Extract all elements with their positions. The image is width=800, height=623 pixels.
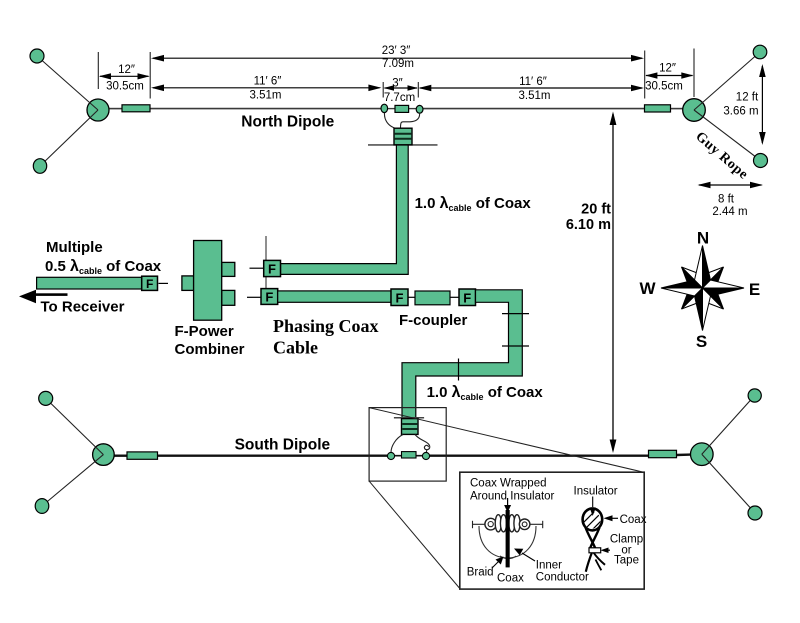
inset label: Coax (loop) — [620, 514, 647, 526]
svg-text:Around Insulator: Around Insulator — [470, 491, 555, 503]
svg-text:North Dipole: North Dipole — [241, 114, 334, 131]
svg-text:3.51m: 3.51m — [519, 90, 551, 102]
svg-text:12″: 12″ — [118, 64, 135, 76]
svg-text:Insulator: Insulator — [574, 485, 618, 497]
label: Multiple 0.5 lambda of coax — [45, 239, 162, 276]
svg-text:W: W — [639, 279, 656, 298]
label: F-Power Combiner — [175, 323, 245, 358]
svg-text:7.7cm: 7.7cm — [384, 92, 415, 104]
svg-text:3″: 3″ — [392, 78, 402, 90]
clamp arrow — [601, 548, 611, 554]
svg-text:12″: 12″ — [659, 63, 676, 75]
north center left small insulator — [381, 104, 388, 112]
clamp — [589, 548, 601, 553]
svg-text:23′ 3″: 23′ 3″ — [382, 45, 411, 57]
receiver F connector — [142, 276, 158, 291]
dimension 8ft guy rope — [698, 182, 764, 218]
loop insulator hatched coax fill — [576, 500, 612, 540]
south left insulator — [127, 452, 158, 459]
upper combiner lead — [250, 267, 264, 269]
upper F connector vertical guide line — [265, 236, 267, 289]
svg-text:Braid: Braid — [467, 566, 494, 578]
svg-text:Coax Wrapped: Coax Wrapped — [470, 478, 547, 490]
svg-text:Inner: Inner — [536, 559, 562, 571]
label: upper 1.0 lambda of coax — [415, 195, 532, 213]
svg-text:2.44 m: 2.44 m — [712, 206, 747, 218]
svg-text:3.66 m: 3.66 m — [723, 105, 758, 117]
south right guy rings — [748, 389, 762, 520]
label: South Dipole — [235, 437, 331, 454]
label: North Dipole — [241, 114, 334, 131]
south center right small insulator — [422, 452, 429, 459]
label: Phasing Coax Cable — [273, 316, 379, 358]
egg insulator body — [485, 515, 530, 532]
svg-text:1.0 λcable of Coax: 1.0 λcable of Coax — [427, 384, 544, 402]
dimension left 12in — [99, 64, 150, 93]
label: To Receiver — [41, 299, 125, 316]
svg-text:30.5cm: 30.5cm — [106, 80, 144, 92]
dimension right 11ft 6in — [418, 76, 644, 102]
lower combiner lead — [247, 296, 261, 298]
svg-text:N: N — [697, 229, 709, 248]
F-power combiner body — [182, 241, 235, 321]
north mast crossbar — [368, 144, 438, 146]
north left insulator — [122, 105, 150, 112]
label: Guy Rope — [692, 129, 750, 183]
zoom callout box — [369, 408, 446, 482]
svg-text:8 ft: 8 ft — [718, 194, 735, 206]
south dipole wire — [113, 455, 691, 456]
dimension 23ft 3in — [151, 45, 644, 70]
zoom projection lines — [369, 408, 643, 589]
compass rose — [661, 246, 744, 331]
north right mast hub — [683, 99, 706, 122]
svg-text:To Receiver: To Receiver — [41, 299, 125, 316]
svg-text:F: F — [265, 290, 273, 305]
north left guy rings — [30, 49, 47, 173]
north right guy ropes — [694, 52, 761, 161]
north right guy rings — [753, 45, 767, 167]
svg-text:S: S — [696, 332, 707, 351]
north left mast hub — [87, 99, 109, 121]
svg-text:Clamp: Clamp — [610, 533, 643, 545]
F-coupler left connector — [391, 289, 408, 306]
detail inset box — [460, 472, 644, 589]
dimension extension ticks — [98, 49, 694, 99]
loop insulator body — [583, 508, 605, 571]
inner conductor arrow — [514, 549, 535, 562]
svg-text:F-coupler: F-coupler — [399, 312, 467, 329]
inset label: Coax (bottom) — [497, 573, 524, 585]
south left mast hub — [93, 444, 115, 466]
0.5-lambda coax to receiver — [37, 277, 142, 289]
dimension left 11ft 6in — [151, 75, 381, 101]
svg-text:Coax: Coax — [620, 514, 647, 526]
svg-text:Conductor: Conductor — [536, 572, 589, 584]
dimension right 12in — [645, 63, 693, 93]
north coax drop curves — [384, 113, 419, 129]
coax section tick marks — [459, 314, 530, 381]
south left guy ropes — [42, 398, 103, 506]
svg-text:South Dipole: South Dipole — [235, 437, 331, 454]
inset label: Braid — [467, 566, 494, 578]
south mast crossbar — [394, 417, 424, 419]
svg-text:11′ 6″: 11′ 6″ — [519, 76, 547, 88]
F-coupler right lead — [450, 296, 459, 298]
coax arrow (loop) — [604, 515, 619, 521]
svg-text:Cable: Cable — [273, 338, 318, 358]
svg-text:3.51m: 3.51m — [250, 90, 282, 102]
svg-text:Phasing Coax: Phasing Coax — [273, 316, 379, 336]
svg-text:7.09m: 7.09m — [382, 58, 414, 70]
inset label: Clamp or Tape — [610, 533, 643, 566]
south left guy rings — [35, 391, 53, 513]
south right insulator — [649, 450, 677, 457]
loop insulator leader — [590, 497, 596, 517]
north left guy ropes — [37, 56, 98, 166]
upper 1.0-lambda coax run — [281, 145, 409, 274]
dimension 3in — [384, 78, 418, 104]
inset label: Insulator — [574, 485, 618, 497]
svg-text:1.0 λcable of Coax: 1.0 λcable of Coax — [415, 195, 532, 213]
coax wrap dome — [479, 526, 536, 559]
F-coupler right connector — [459, 289, 476, 306]
inner conductor bar — [504, 498, 511, 567]
south center connector block — [402, 452, 417, 458]
north center connector block — [395, 105, 409, 112]
svg-text:11′ 6″: 11′ 6″ — [254, 75, 282, 87]
south right guy ropes — [702, 396, 755, 514]
egg insulator wire — [472, 521, 543, 528]
svg-text:E: E — [749, 280, 760, 299]
svg-text:F: F — [396, 290, 404, 305]
lower F connector at combiner — [261, 289, 278, 305]
north center right small insulator — [416, 105, 423, 113]
upper F connector — [264, 260, 281, 276]
braid arrow — [492, 557, 504, 569]
svg-text:20 ft: 20 ft — [581, 202, 611, 218]
F-coupler barrel — [415, 291, 450, 305]
lower 1.0-lambda coax run — [402, 290, 522, 419]
svg-text:Multiple: Multiple — [46, 239, 103, 256]
south coax coil — [402, 419, 419, 435]
svg-text:Combiner: Combiner — [175, 341, 245, 358]
svg-text:F: F — [463, 290, 471, 305]
svg-text:F: F — [146, 277, 153, 291]
north right insulator — [645, 105, 671, 112]
label: F-coupler — [399, 312, 467, 329]
svg-text:6.10 m: 6.10 m — [566, 217, 611, 233]
north coax coil — [394, 128, 412, 145]
south right mast hub — [691, 443, 714, 466]
label: lower 1.0 lambda of coax — [427, 384, 544, 402]
svg-text:30.5cm: 30.5cm — [645, 81, 683, 93]
receiver F lead — [159, 282, 169, 284]
south center left small insulator — [387, 452, 394, 459]
svg-text:F-Power: F-Power — [175, 323, 234, 340]
dimension 20ft spacing — [566, 112, 617, 454]
F-coupler left lead — [408, 296, 415, 298]
inset label: Coax Wrapped Around Insulator — [470, 478, 555, 503]
svg-text:Coax: Coax — [497, 573, 524, 585]
svg-text:12 ft: 12 ft — [736, 92, 759, 104]
svg-text:Tape: Tape — [614, 554, 639, 566]
svg-text:F: F — [268, 262, 276, 277]
south coax drop curves — [391, 435, 430, 453]
svg-text:0.5 λcable of Coax: 0.5 λcable of Coax — [45, 258, 162, 276]
compass letters — [639, 229, 760, 352]
phasing coax cable — [278, 291, 391, 302]
inset label: Inner Conductor — [536, 559, 589, 583]
dimension 12ft guy rope — [723, 64, 765, 145]
to receiver arrow — [19, 290, 68, 304]
north dipole wire — [108, 108, 685, 110]
